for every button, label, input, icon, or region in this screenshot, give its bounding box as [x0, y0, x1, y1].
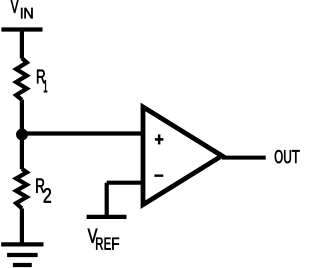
wire R1 to node A: [20, 100, 24, 134]
wire VIN rail to R1: [20, 30, 24, 59]
op-amp + input marker: [155, 134, 164, 144]
node VREF label: [88, 229, 98, 243]
ground: [1, 244, 43, 265]
label R1: [37, 70, 45, 84]
VIN rail terminal: [1, 27, 42, 31]
wire VREF vertical: [105, 183, 109, 217]
wire op-amp output: [222, 156, 266, 160]
node VIN label: [11, 0, 19, 13]
wire R2 to ground: [20, 208, 24, 244]
node OUT label: [275, 150, 283, 163]
resistor R2: [16, 169, 27, 209]
op-amp - input marker: [154, 174, 163, 176]
label R2: [36, 179, 44, 193]
node A junction dot: [16, 129, 28, 141]
VREF terminal bar: [87, 215, 127, 219]
wire node A to R2: [20, 135, 24, 170]
wire op-amp - input stub: [107, 181, 143, 185]
resistor R1: [16, 58, 27, 100]
wire node A to op-amp + input: [22, 131, 143, 135]
op-amp U1 triangle: [143, 107, 222, 205]
